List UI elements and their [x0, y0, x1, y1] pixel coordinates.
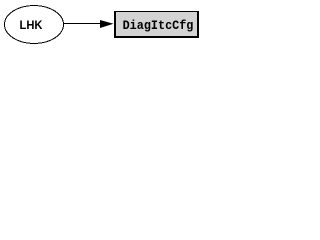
arrowhead — [100, 20, 114, 28]
node DiagItcCfg (box border) — [114, 11, 199, 38]
svg-text:LHK: LHK — [20, 18, 43, 32]
node DiagItcCfg (box fill) — [116, 12, 197, 36]
node LHK (ellipse) — [5, 6, 64, 44]
wire: edge LHK to DiagItcCfg — [64, 23, 101, 25]
svg-text:DiagItcCfg: DiagItcCfg — [123, 18, 194, 33]
